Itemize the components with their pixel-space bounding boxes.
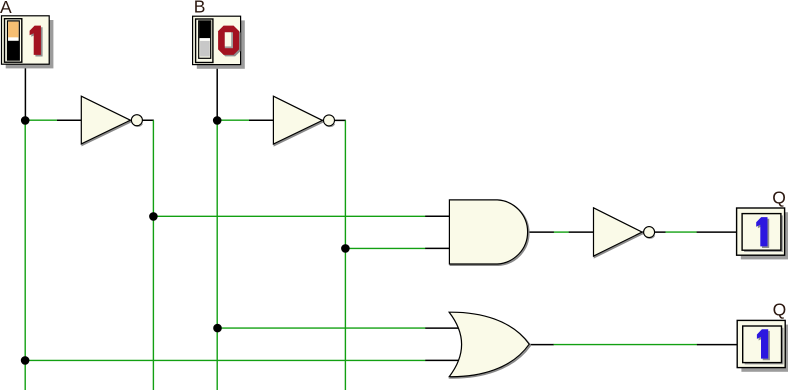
wire: vertical bus B (green, x=217) bbox=[216, 120, 218, 390]
wire: OR output stub (black) bbox=[529, 344, 553, 346]
node: junction dot NOT2 bus to AND (345.5,248) bbox=[341, 244, 350, 253]
wire: NOT3 input stub (black) bbox=[569, 231, 594, 233]
inverter U2 (NOT gate on B) bbox=[273, 96, 334, 145]
wire: node A bus to OR input 2 (green horizontal y=360) bbox=[25, 359, 425, 361]
wire: AND output stub (black) bbox=[529, 231, 554, 233]
node: junction dot NOT1 bus to AND (153.5,216) bbox=[149, 212, 158, 221]
svg-text:Q: Q bbox=[773, 300, 787, 320]
wire: AND input 1 stub (black) bbox=[425, 215, 450, 217]
svg-text:A: A bbox=[0, 0, 12, 17]
wire: node B to NOT2 input (green) bbox=[217, 119, 249, 121]
wire: NOT1 output to AND input 1 (green horizontal y=216) bbox=[153, 215, 425, 217]
wire: AND to NOT3 (green) bbox=[554, 231, 569, 233]
input switch B (logic 0) bbox=[193, 16, 245, 69]
output indicator Q1 (logic 1) bbox=[737, 208, 788, 259]
wire: OR input 1 stub (black) bbox=[425, 327, 459, 329]
wire: vertical bus A (green, x=25) bbox=[24, 120, 26, 390]
label A bbox=[0, 0, 12, 17]
wire: NOT1 output stub (black) bbox=[130, 119, 154, 121]
label Q (top output) bbox=[772, 187, 786, 207]
node: junction dot B column top (217,120) bbox=[213, 116, 222, 125]
output indicator Q2 (logic 1) bbox=[737, 320, 788, 371]
wire: Q1 input pin (black) bbox=[697, 231, 737, 233]
inverter U4 (NOT gate after AND) bbox=[594, 208, 655, 257]
svg-text:Q: Q bbox=[772, 187, 786, 207]
label Q (bottom output) bbox=[773, 300, 787, 320]
input switch A (logic 1) bbox=[2, 16, 54, 69]
wire: switch A output pin (black vertical) bbox=[24, 64, 26, 121]
wire: NOT2 input stub (black) bbox=[249, 119, 274, 121]
wire: NOT1 input stub (black) bbox=[57, 119, 82, 121]
wire: vertical bus NOT2 output (green, x=345.5) bbox=[344, 120, 346, 390]
wire: switch B output pin (black vertical) bbox=[216, 64, 218, 121]
wire: vertical bus NOT1 output (green, x=153.5) bbox=[152, 120, 154, 390]
inverter U1 (NOT gate on A) bbox=[81, 96, 142, 145]
wire: OR to Q2 (green) bbox=[554, 344, 698, 346]
node: junction dot A bus to OR (25,360) bbox=[21, 356, 30, 365]
OR gate U5 bbox=[449, 312, 530, 378]
wire: Q2 input pin (black) bbox=[697, 344, 738, 346]
node: junction dot A column top (25,120) bbox=[21, 116, 30, 125]
wire: NOT2 output stub (black) bbox=[322, 119, 346, 121]
wire: OR input 2 stub (black) bbox=[425, 359, 459, 361]
wire: NOT2 output to AND input 2 (green horizontal y=248) bbox=[345, 247, 425, 249]
wire: AND input 2 stub (black) bbox=[425, 247, 450, 249]
wire: NOT3 output stub (black) bbox=[642, 231, 666, 233]
label B bbox=[194, 0, 206, 17]
wire: NOT3 to Q1 (green) bbox=[665, 231, 697, 233]
wire: node B bus to OR input 1 (green horizontal y=328) bbox=[218, 327, 426, 329]
wire: node A to NOT1 input (green) bbox=[25, 119, 57, 121]
svg-text:B: B bbox=[194, 0, 206, 17]
node: junction dot B bus to OR (217.5,328) bbox=[213, 324, 222, 333]
AND gate U3 bbox=[449, 200, 528, 265]
